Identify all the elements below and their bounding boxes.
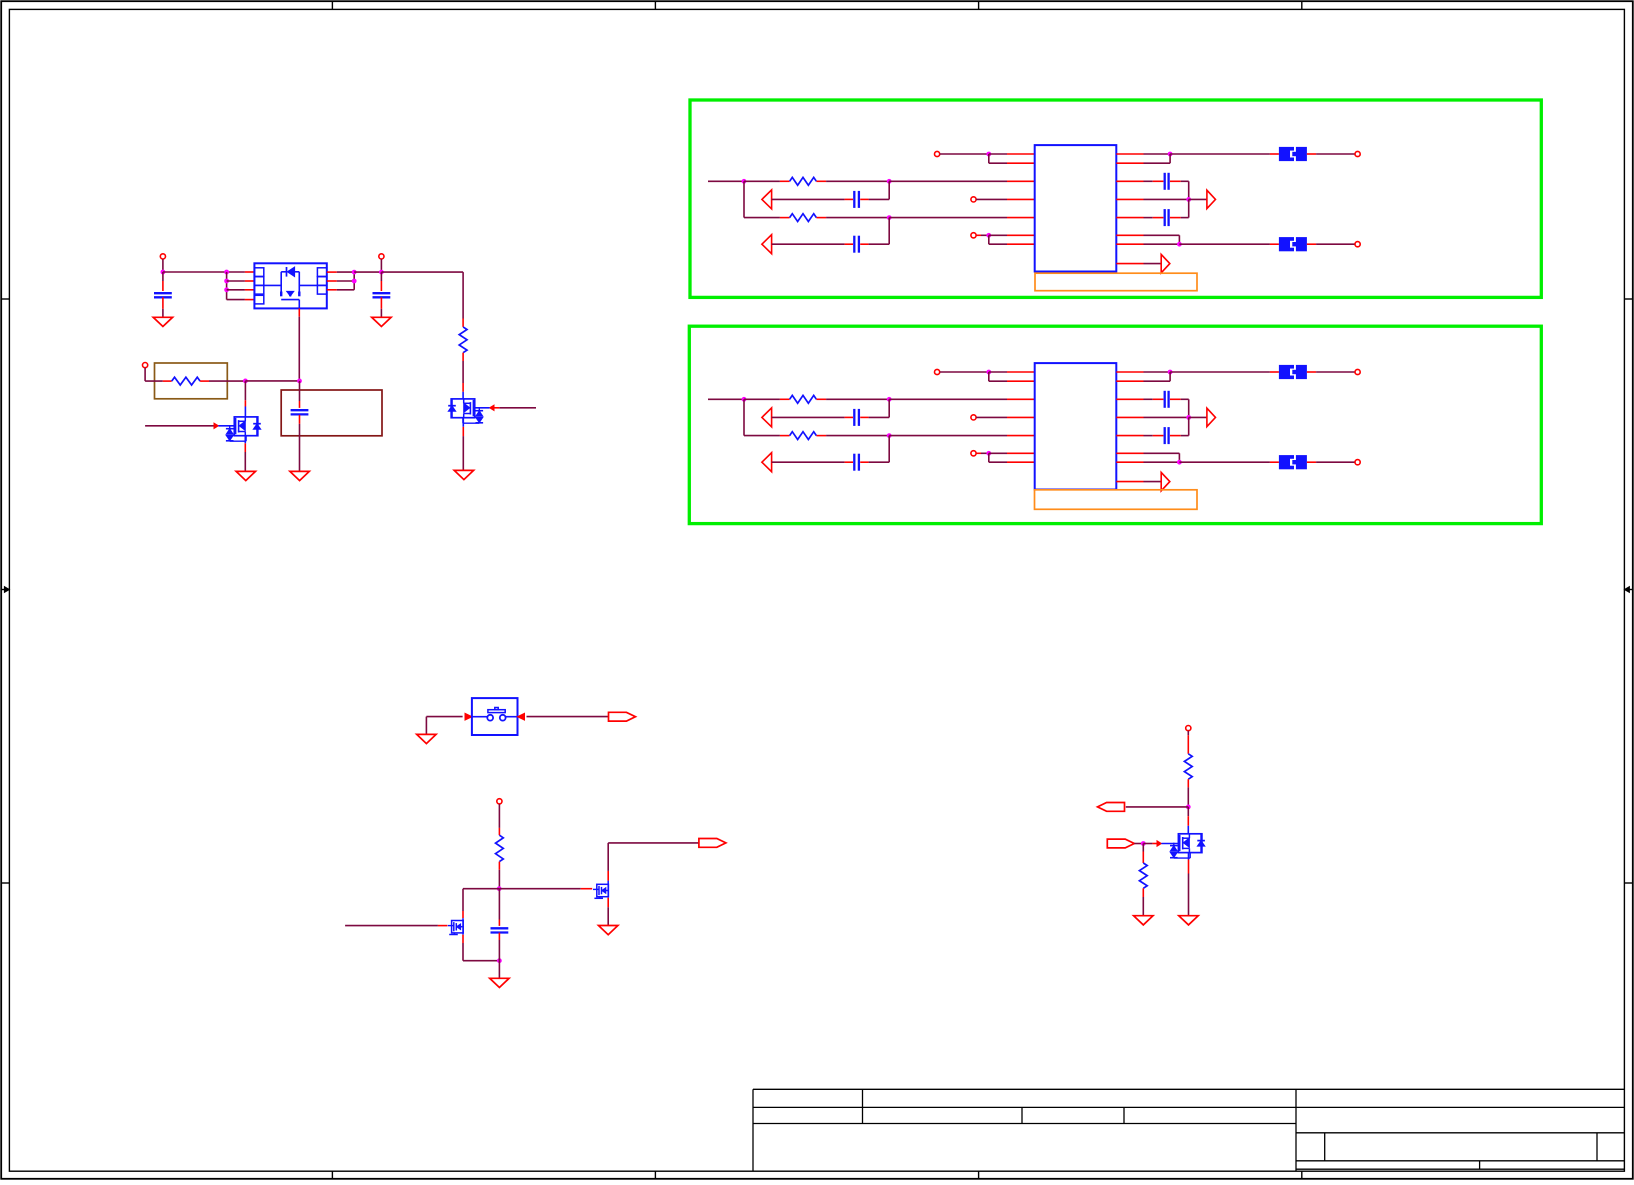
- junction: [243, 379, 248, 384]
- gate wire Q4: [345, 925, 438, 927]
- capacitor C3d: [1144, 435, 1153, 437]
- wire: [337, 289, 354, 291]
- wire: [1188, 181, 1190, 199]
- title block doc row top: [1296, 1132, 1624, 1134]
- junction: [742, 397, 747, 402]
- wire: [227, 289, 245, 291]
- wire: [1189, 416, 1207, 418]
- transistor Q4: [452, 921, 464, 933]
- border zone tick left 2: [1, 882, 9, 884]
- wire: [989, 234, 1007, 236]
- wire: [1144, 153, 1171, 155]
- border zone tick bottom 4: [1301, 1171, 1303, 1179]
- pin: [1007, 162, 1035, 164]
- output sense arrow ch3: [1207, 408, 1216, 426]
- resistor R1: [163, 380, 172, 382]
- wire: [499, 888, 581, 890]
- wire: [1170, 371, 1270, 373]
- wire: [976, 198, 1007, 200]
- port POWER-ON: [699, 839, 726, 848]
- pin: [1007, 380, 1035, 382]
- load switch U1 pins left: [245, 271, 255, 273]
- thermal pad note box ch2: [1035, 273, 1197, 291]
- wire: [976, 416, 1007, 418]
- junction: [1168, 152, 1173, 157]
- wire: [162, 259, 164, 272]
- border zone tick right 2: [1624, 882, 1632, 884]
- wire: [1189, 198, 1207, 200]
- wire: [743, 181, 745, 217]
- pin: [1007, 416, 1035, 418]
- resistor R6: [1187, 735, 1189, 754]
- node terminal circle VDD: [497, 799, 502, 804]
- wire: [1187, 787, 1189, 807]
- title block rev cell divider: [1596, 1133, 1598, 1161]
- wire: [826, 435, 889, 437]
- wire: [989, 452, 1007, 454]
- wire: [889, 180, 1007, 182]
- output terminal circle ch2 top: [1355, 151, 1360, 156]
- junction: [224, 270, 229, 275]
- junction: [1186, 415, 1191, 420]
- maroon component group box: [281, 390, 382, 436]
- wire: [1144, 234, 1180, 236]
- wire: [888, 218, 890, 245]
- border zone tick top 3: [978, 1, 980, 9]
- title block cell divider c: [1123, 1107, 1125, 1123]
- load switch U1 pins right: [327, 271, 337, 273]
- wire: [337, 271, 354, 273]
- resistor R7 gate pulldown: [1142, 844, 1144, 852]
- wire: [1316, 461, 1355, 463]
- wire: [1188, 417, 1190, 435]
- wire: [1144, 243, 1180, 245]
- wire: [1187, 807, 1189, 816]
- wire: [988, 453, 990, 462]
- border centre arrow right: [1624, 589, 1632, 591]
- load switch U1 body: [254, 263, 326, 308]
- title block sheet cell divider: [1479, 1161, 1481, 1169]
- mute arrow ch2: [1161, 254, 1170, 272]
- wire: [1188, 199, 1190, 217]
- ferrite bead FB2b: [1270, 243, 1279, 245]
- junction: [1141, 841, 1146, 846]
- mute arrow ch3: [1161, 472, 1170, 490]
- title block size cell divider: [1324, 1133, 1326, 1161]
- transistor Q3: [597, 884, 609, 896]
- pin: [1007, 452, 1035, 454]
- wire: [381, 271, 463, 273]
- feedback arrow ch2 upper: [762, 190, 772, 209]
- wire: [888, 399, 890, 417]
- capacitor C3a: [772, 416, 845, 418]
- wire: [826, 398, 889, 400]
- junction: [224, 287, 229, 292]
- capacitor C2d: [1144, 217, 1153, 219]
- border centre arrow left: [1, 589, 9, 591]
- wire: [1144, 416, 1189, 418]
- capacitor C3c: [1144, 398, 1153, 400]
- wire: [1188, 853, 1190, 860]
- pins right: [1116, 371, 1143, 373]
- wire: [1316, 243, 1355, 245]
- wire: [1144, 371, 1171, 373]
- node terminal circle ch3 low: [971, 451, 976, 456]
- junction: [742, 179, 747, 184]
- wire: [940, 153, 989, 155]
- capacitor C8: [498, 889, 500, 920]
- wire: [1134, 843, 1143, 845]
- ferrite bead FB3a: [1270, 371, 1279, 373]
- node terminal circle 3V3: [1186, 726, 1191, 731]
- wire: [145, 380, 163, 382]
- wire: [889, 435, 1007, 437]
- wire: [940, 371, 989, 373]
- output terminal circle ch3 low: [1355, 460, 1360, 465]
- wire: [353, 272, 355, 290]
- green channel 3 outline box: [689, 326, 1541, 523]
- gate pull wire from U1: [298, 308, 300, 316]
- ground: [290, 471, 309, 480]
- amplifier IC U2: [1035, 145, 1117, 271]
- title block outline: [753, 1088, 1624, 1090]
- resistor R2: [462, 319, 464, 327]
- resistor R2b: [744, 217, 780, 219]
- wire: [976, 452, 981, 454]
- brown component group box: [155, 363, 228, 399]
- port AMP-EN out: [1098, 803, 1125, 812]
- ground: [417, 734, 436, 743]
- wire: [227, 299, 245, 301]
- wire: [889, 398, 1007, 400]
- wire: [1144, 452, 1180, 454]
- push button SW1: [465, 713, 472, 720]
- capacitor C2: [380, 272, 382, 281]
- border zone tick bottom 2: [654, 1171, 656, 1179]
- wire: [1144, 380, 1171, 382]
- wire: [163, 271, 245, 273]
- wire: [1144, 481, 1162, 483]
- wire: [988, 154, 990, 163]
- wire: [354, 271, 381, 273]
- wire: [209, 380, 245, 382]
- load switch U1 internal mosfet: [264, 284, 281, 286]
- wire: [244, 381, 246, 400]
- ground: [372, 317, 391, 326]
- ground: [599, 926, 618, 935]
- resistor R3b: [744, 435, 780, 437]
- gate input arrow Q5: [1143, 843, 1152, 845]
- junction: [1186, 805, 1191, 810]
- node terminal circle ch3 top: [935, 369, 940, 374]
- wire: [463, 960, 499, 962]
- wire: [1316, 153, 1355, 155]
- node VIN terminal circle: [160, 254, 165, 259]
- transistor Q1: [234, 417, 257, 436]
- wire: [426, 716, 462, 718]
- wire: [226, 272, 228, 300]
- output terminal circle ch3 top: [1355, 369, 1360, 374]
- title block cell divider b: [1021, 1107, 1023, 1123]
- transistor Q2: [451, 399, 475, 418]
- junction: [887, 397, 892, 402]
- junction: [352, 270, 357, 275]
- green channel 2 outline box: [690, 100, 1541, 297]
- border zone tick bottom 1: [331, 1171, 333, 1179]
- capacitor C3b: [772, 461, 845, 463]
- wire: [889, 217, 1007, 219]
- wire: [888, 436, 890, 463]
- wire: [498, 804, 500, 828]
- resistor R5: [498, 828, 500, 835]
- ferrite bead FB3b: [1270, 461, 1279, 463]
- wire: [498, 870, 500, 889]
- capacitor C2a: [772, 198, 845, 200]
- title block cell divider a: [862, 1089, 864, 1123]
- wire: [425, 717, 427, 735]
- ground: [1179, 916, 1198, 925]
- junction: [352, 279, 357, 284]
- pin: [1007, 198, 1035, 200]
- node terminal circle ch2 top: [935, 151, 940, 156]
- wire: [826, 180, 889, 182]
- border zone tick top 4: [1301, 1, 1303, 9]
- wire: [1144, 461, 1180, 463]
- ground: [236, 471, 255, 480]
- capacitor C1: [162, 272, 164, 281]
- audio input wire ch2: [708, 180, 744, 182]
- node terminal circle ch2 mid: [971, 197, 976, 202]
- pin: [1007, 153, 1035, 155]
- wire: [463, 888, 499, 890]
- ground: [153, 317, 172, 326]
- wire: [1187, 731, 1189, 736]
- wire: [1126, 806, 1189, 808]
- wire: [743, 399, 745, 435]
- wire: [1144, 162, 1171, 164]
- node terminal circle ch2 low: [971, 233, 976, 238]
- pin: [1007, 435, 1035, 437]
- transistor Q5: [1178, 834, 1202, 853]
- wire: [1144, 263, 1162, 265]
- wire: [527, 716, 609, 718]
- junction: [497, 886, 502, 891]
- junction: [986, 370, 991, 375]
- capacitor C2c: [1144, 180, 1153, 182]
- wire: [462, 361, 464, 383]
- wire: [1179, 461, 1270, 463]
- pin: [1007, 234, 1035, 236]
- output sense arrow ch2: [1207, 190, 1216, 208]
- wire: [989, 371, 1007, 373]
- title block row line 2 left: [753, 1123, 1296, 1125]
- wire: [1188, 399, 1190, 417]
- junction: [1177, 242, 1182, 247]
- ground: [490, 978, 509, 987]
- title block section divider: [1295, 1089, 1297, 1171]
- ground: [1134, 916, 1153, 925]
- border zone tick top 2: [654, 1, 656, 9]
- wire: [380, 259, 382, 272]
- junction: [986, 233, 991, 238]
- wire: [1179, 243, 1270, 245]
- wire: [462, 418, 464, 427]
- junction: [297, 379, 302, 384]
- feedback arrow ch2 lower: [762, 235, 772, 254]
- junction: [1186, 197, 1191, 202]
- capacitor C2b: [772, 243, 845, 245]
- output terminal circle ch2 low: [1355, 242, 1360, 247]
- thermal pad note box ch3: [1035, 490, 1198, 510]
- wire: [1144, 198, 1189, 200]
- wire: [462, 272, 464, 318]
- wire: [462, 935, 464, 943]
- title block date row bottom: [1296, 1168, 1624, 1170]
- wire: [462, 889, 464, 911]
- junction: [887, 433, 892, 438]
- node VOUT terminal circle: [379, 254, 384, 259]
- wire: [227, 280, 245, 282]
- junction: [497, 958, 502, 963]
- wire: [988, 372, 990, 381]
- amplifier IC U3: [1035, 363, 1117, 489]
- feedback arrow ch3 upper: [762, 408, 772, 427]
- pin: [1007, 180, 1035, 182]
- title block row line 1: [753, 1106, 1624, 1108]
- node EN terminal circle: [143, 363, 148, 368]
- wire: [826, 217, 889, 219]
- audio input wire ch3: [708, 398, 744, 400]
- junction: [887, 215, 892, 220]
- wire: [976, 234, 981, 236]
- ground: [454, 470, 473, 479]
- pins right: [1116, 153, 1143, 155]
- junction: [986, 152, 991, 157]
- wire: [888, 181, 890, 199]
- pin: [1007, 217, 1035, 219]
- node terminal circle ch3 mid: [971, 415, 976, 420]
- wire: [1316, 371, 1355, 373]
- resistor R3a: [744, 398, 780, 400]
- ferrite bead FB2a: [1270, 153, 1279, 155]
- border zone tick left 1: [1, 298, 9, 300]
- wire: [988, 235, 990, 244]
- wire: [989, 153, 1007, 155]
- port CTRL in: [1107, 839, 1134, 848]
- title block doc row bottom: [1296, 1160, 1624, 1162]
- pin: [1007, 371, 1035, 373]
- junction: [379, 270, 384, 275]
- wire: [607, 898, 609, 908]
- resistor R2a: [744, 180, 780, 182]
- capacitor C3: [299, 381, 301, 401]
- wire: [245, 380, 299, 382]
- wire: [337, 280, 354, 282]
- junction: [986, 451, 991, 456]
- wire: [1170, 153, 1270, 155]
- junction: [887, 179, 892, 184]
- wire: [498, 961, 500, 979]
- gate input arrow Q1: [145, 425, 214, 427]
- junction: [224, 279, 229, 284]
- feedback arrow ch3 lower: [762, 453, 772, 472]
- pin: [1007, 461, 1035, 463]
- wire: [144, 368, 146, 381]
- border zone tick right 1: [1624, 298, 1632, 300]
- junction: [1168, 370, 1173, 375]
- junction: [161, 270, 166, 275]
- pin: [1007, 243, 1035, 245]
- pin: [1007, 398, 1035, 400]
- border zone tick top 1: [331, 1, 333, 9]
- junction: [1177, 460, 1182, 465]
- port KEY: [609, 712, 636, 721]
- border zone tick bottom 3: [978, 1171, 980, 1179]
- wire: [244, 436, 246, 444]
- gate input arrow Q2: [499, 407, 536, 409]
- wire: [607, 871, 609, 881]
